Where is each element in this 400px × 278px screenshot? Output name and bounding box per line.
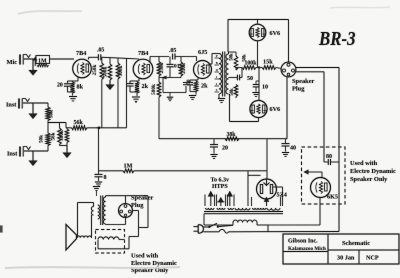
wire P2 bottom pin bbox=[125, 218, 127, 225]
heater arrow 2 short bbox=[220, 201, 222, 206]
AC plug bbox=[194, 226, 199, 228]
wire V2 plate up bbox=[149, 57, 151, 62]
capacitor bypass V2 bbox=[129, 81, 131, 84]
wire cathode node down bbox=[258, 68, 260, 101]
ground above output transformer bbox=[93, 186, 100, 188]
heater arrow 3 bbox=[229, 195, 231, 206]
capacitor bypass V3 bbox=[189, 80, 191, 82]
wire T2 right drop bbox=[267, 225, 269, 232]
wire vertical to field box outer bbox=[338, 68, 340, 232]
resistor 50k inst2 vertical bbox=[47, 123, 49, 134]
wire plug to switch bbox=[203, 226, 208, 228]
wire 5Z4 cathode arrow bbox=[266, 202, 268, 207]
wire top to upper 6V6 bbox=[228, 19, 289, 21]
title block divider horizontal left bbox=[283, 251, 328, 253]
resistor 250k plate load 3 bbox=[158, 57, 160, 62]
wire T1 secondary bottom drop bbox=[229, 94, 231, 122]
wire mixing bus bbox=[48, 122, 66, 124]
title block divider vertical bbox=[327, 234, 329, 264]
capacitor 50 tone bbox=[183, 82, 189, 84]
T2 core lines bbox=[204, 211, 283, 213]
wire B+ rail bbox=[160, 138, 287, 140]
wire plug right upper bbox=[296, 67, 339, 69]
wire mic jack to 1M bbox=[24, 58, 36, 60]
wire B+ drop to 5Z4 bbox=[266, 139, 268, 180]
junction dot at 56k node bbox=[98, 127, 101, 130]
jack J2 inst input bbox=[18, 99, 20, 109]
wire mixer bottoms bbox=[60, 145, 68, 147]
wire 1M to V1 grid bbox=[50, 58, 75, 60]
resistor 38k bbox=[225, 137, 239, 141]
wire bottom to bus bbox=[230, 121, 259, 123]
ground arrow 500k pot2 bbox=[109, 80, 111, 86]
capacitor 80 bbox=[324, 161, 328, 163]
output transformer T3 secondary bbox=[98, 205, 100, 219]
resistor 1M feedback bbox=[99, 170, 124, 172]
output transformer T3 primary bbox=[103, 197, 105, 224]
tube V1 7B4 bbox=[73, 59, 92, 78]
T2 secondary winding bumps bbox=[206, 208, 215, 209]
ground V3 cathode bbox=[189, 95, 196, 97]
wire tone node with wiper arrow bbox=[159, 77, 181, 79]
wire P2 right pin bbox=[133, 210, 139, 212]
wire 5Z4 right plate bbox=[273, 186, 283, 188]
wire T1 secondary top stub bbox=[227, 52, 229, 54]
capacitor 10 bbox=[256, 80, 259, 82]
resistor 500k pot stage2 bbox=[109, 58, 111, 64]
wire V1 plate to coupling bbox=[88, 57, 90, 59]
wire inst2 jack bbox=[24, 150, 48, 152]
field coil winding bbox=[98, 237, 119, 240]
tube V5 6V6 lower bbox=[250, 100, 267, 117]
speaker cone bbox=[66, 225, 77, 251]
wire bus drop stage2 bbox=[126, 59, 128, 128]
hum coil box bbox=[77, 203, 79, 238]
resistor 50k inst1 vertical bbox=[47, 103, 49, 107]
wire plug bottom down bbox=[286, 77, 288, 139]
capacitor 8 bbox=[98, 128, 100, 171]
wire 5Z4 left plate bbox=[248, 174, 261, 176]
ground under cap 10 bbox=[252, 92, 259, 94]
resistor 50k T1 top bbox=[235, 52, 237, 56]
ground arrow mixer bbox=[66, 146, 68, 154]
wire upper 6V6 plate lead bbox=[257, 20, 259, 25]
capacitor 20 bypass V1 bbox=[67, 81, 69, 84]
resistor 1M mic grid (boxed) bbox=[36, 56, 50, 64]
transformer T1 primary winding bbox=[219, 54, 222, 95]
jack J3 inst input 2 bbox=[19, 147, 21, 157]
wire V3 plate to transformer bbox=[209, 63, 213, 65]
heater arrow 1 bbox=[210, 195, 212, 206]
tube V6 5Z4 rectifier bbox=[257, 179, 277, 199]
resistor 56k horizontal bbox=[66, 127, 72, 129]
title block divider horizontal right bbox=[328, 249, 399, 251]
resistor 100k bbox=[236, 67, 242, 69]
wire plug top pin up bbox=[288, 20, 290, 63]
ground arrow at inst2 bbox=[32, 152, 34, 162]
resistor 2k cathode V2 bbox=[136, 81, 138, 82]
speaker plug P1 pins bbox=[287, 63, 290, 66]
ground cap 8 bbox=[95, 181, 102, 183]
dashed box electro dynamic right bbox=[302, 147, 346, 204]
wire into field coil bbox=[129, 236, 139, 238]
wire T3 top line bbox=[105, 196, 107, 197]
jack J1 mic input bbox=[19, 55, 21, 65]
power transformer T2 winding under 5Z4 bbox=[253, 208, 267, 209]
junction 100k/15k bbox=[258, 66, 260, 68]
wire T3 bottom line bbox=[105, 223, 107, 226]
tube V7 6K5 bbox=[311, 178, 331, 198]
ground filter 40 bbox=[282, 152, 289, 154]
wire tone box bbox=[162, 78, 164, 93]
wire cathode 6K5 link bbox=[268, 224, 320, 226]
scan artifact smudge top-left bbox=[18, 11, 82, 14]
ground under T1 bbox=[218, 98, 225, 100]
ground tone network bbox=[169, 93, 171, 97]
wire lower 6V6 plate lead bbox=[258, 118, 260, 122]
wire grid bus left vertical bbox=[227, 20, 229, 53]
wire T2 left drop bbox=[203, 214, 205, 225]
wire 6K5 cathode down bbox=[319, 197, 321, 225]
grid arrow 6K5 bbox=[321, 172, 323, 178]
power transformer T2 rectifier loop bbox=[251, 197, 253, 206]
resistor 250k grid2 bbox=[101, 57, 103, 63]
ground filter 20 bbox=[210, 154, 217, 156]
resistor 2k cathode V3 bbox=[195, 80, 197, 81]
wire V3 cathode bbox=[197, 78, 199, 80]
wire node stub bbox=[97, 127, 100, 129]
wire bottom main bbox=[229, 231, 340, 233]
wire T3 top corner down bbox=[147, 196, 149, 228]
wire inst1 jack bbox=[23, 102, 48, 104]
speaker plug P1 body bbox=[281, 62, 296, 77]
scan artifact left edge mark bbox=[0, 226, 3, 233]
output transformer T3 core bbox=[100, 196, 102, 226]
wire P2 top pin bbox=[125, 196, 127, 204]
capacitor .05 coupling 1 bbox=[97, 54, 99, 60]
ground V1 cathode bbox=[69, 96, 77, 98]
transformer T1 terminal ticks bbox=[215, 57, 220, 59]
scan artifact smudge top-right bbox=[330, 7, 390, 8]
title block divider date bbox=[358, 250, 360, 264]
tube V2 7B4 bbox=[133, 59, 153, 79]
tube V4 6V6 upper bbox=[249, 24, 266, 41]
title block outer bbox=[283, 234, 399, 264]
transformer T1 secondary winding bbox=[226, 54, 229, 94]
voice coil bbox=[77, 236, 92, 238]
tube V3 6J5 bbox=[194, 61, 212, 79]
T2 primary winding bbox=[213, 224, 233, 226]
pot wiper arrow into 1M bbox=[34, 60, 36, 66]
resistor 500k lower s3 bbox=[158, 76, 160, 82]
resistor 56k vertical mixer bbox=[59, 123, 61, 129]
speaker plug P2 pins bbox=[124, 205, 127, 208]
ground V2 cathode bbox=[132, 96, 140, 98]
T2 heater winding boxes bbox=[204, 195, 206, 207]
capacitor 50 coupling bbox=[228, 77, 237, 79]
wire plug lower to fuse bbox=[203, 231, 219, 233]
wire V2 cathode bbox=[138, 79, 140, 82]
switch SW1 bbox=[208, 226, 210, 228]
capacitor .05 coupling 2 bbox=[172, 54, 174, 60]
capacitor .01 tone bbox=[169, 57, 171, 65]
resistor 250k tone bbox=[180, 57, 182, 63]
resistor 8k cathode V1 bbox=[72, 81, 74, 82]
wire switch to primary bbox=[219, 225, 233, 226]
speaker plug P2 body bbox=[119, 204, 133, 218]
resistor 500k grid leak 2 bbox=[117, 58, 119, 63]
ground arrow at mic input bbox=[32, 60, 34, 72]
wire vertical to field box inner bbox=[323, 72, 325, 162]
resistor 15k bbox=[262, 66, 276, 70]
dashed box electro dynamic left bbox=[96, 230, 125, 254]
scan artifact bottom edge bbox=[5, 267, 180, 268]
fuse bbox=[219, 229, 229, 233]
wire V1 cathode bbox=[77, 77, 79, 81]
transformer T1 core bbox=[222, 52, 224, 97]
capacitor 40 filter bbox=[285, 139, 287, 144]
wire plug right lower bbox=[296, 71, 324, 73]
resistor 50k T1 bottom bbox=[234, 85, 238, 97]
ground arrow at inst1 bbox=[32, 104, 34, 115]
resistor 500k vertical mixer bbox=[66, 128, 68, 129]
capacitor 20 filter bbox=[213, 139, 215, 145]
wire upper 6V6 cathode down bbox=[257, 41, 259, 68]
